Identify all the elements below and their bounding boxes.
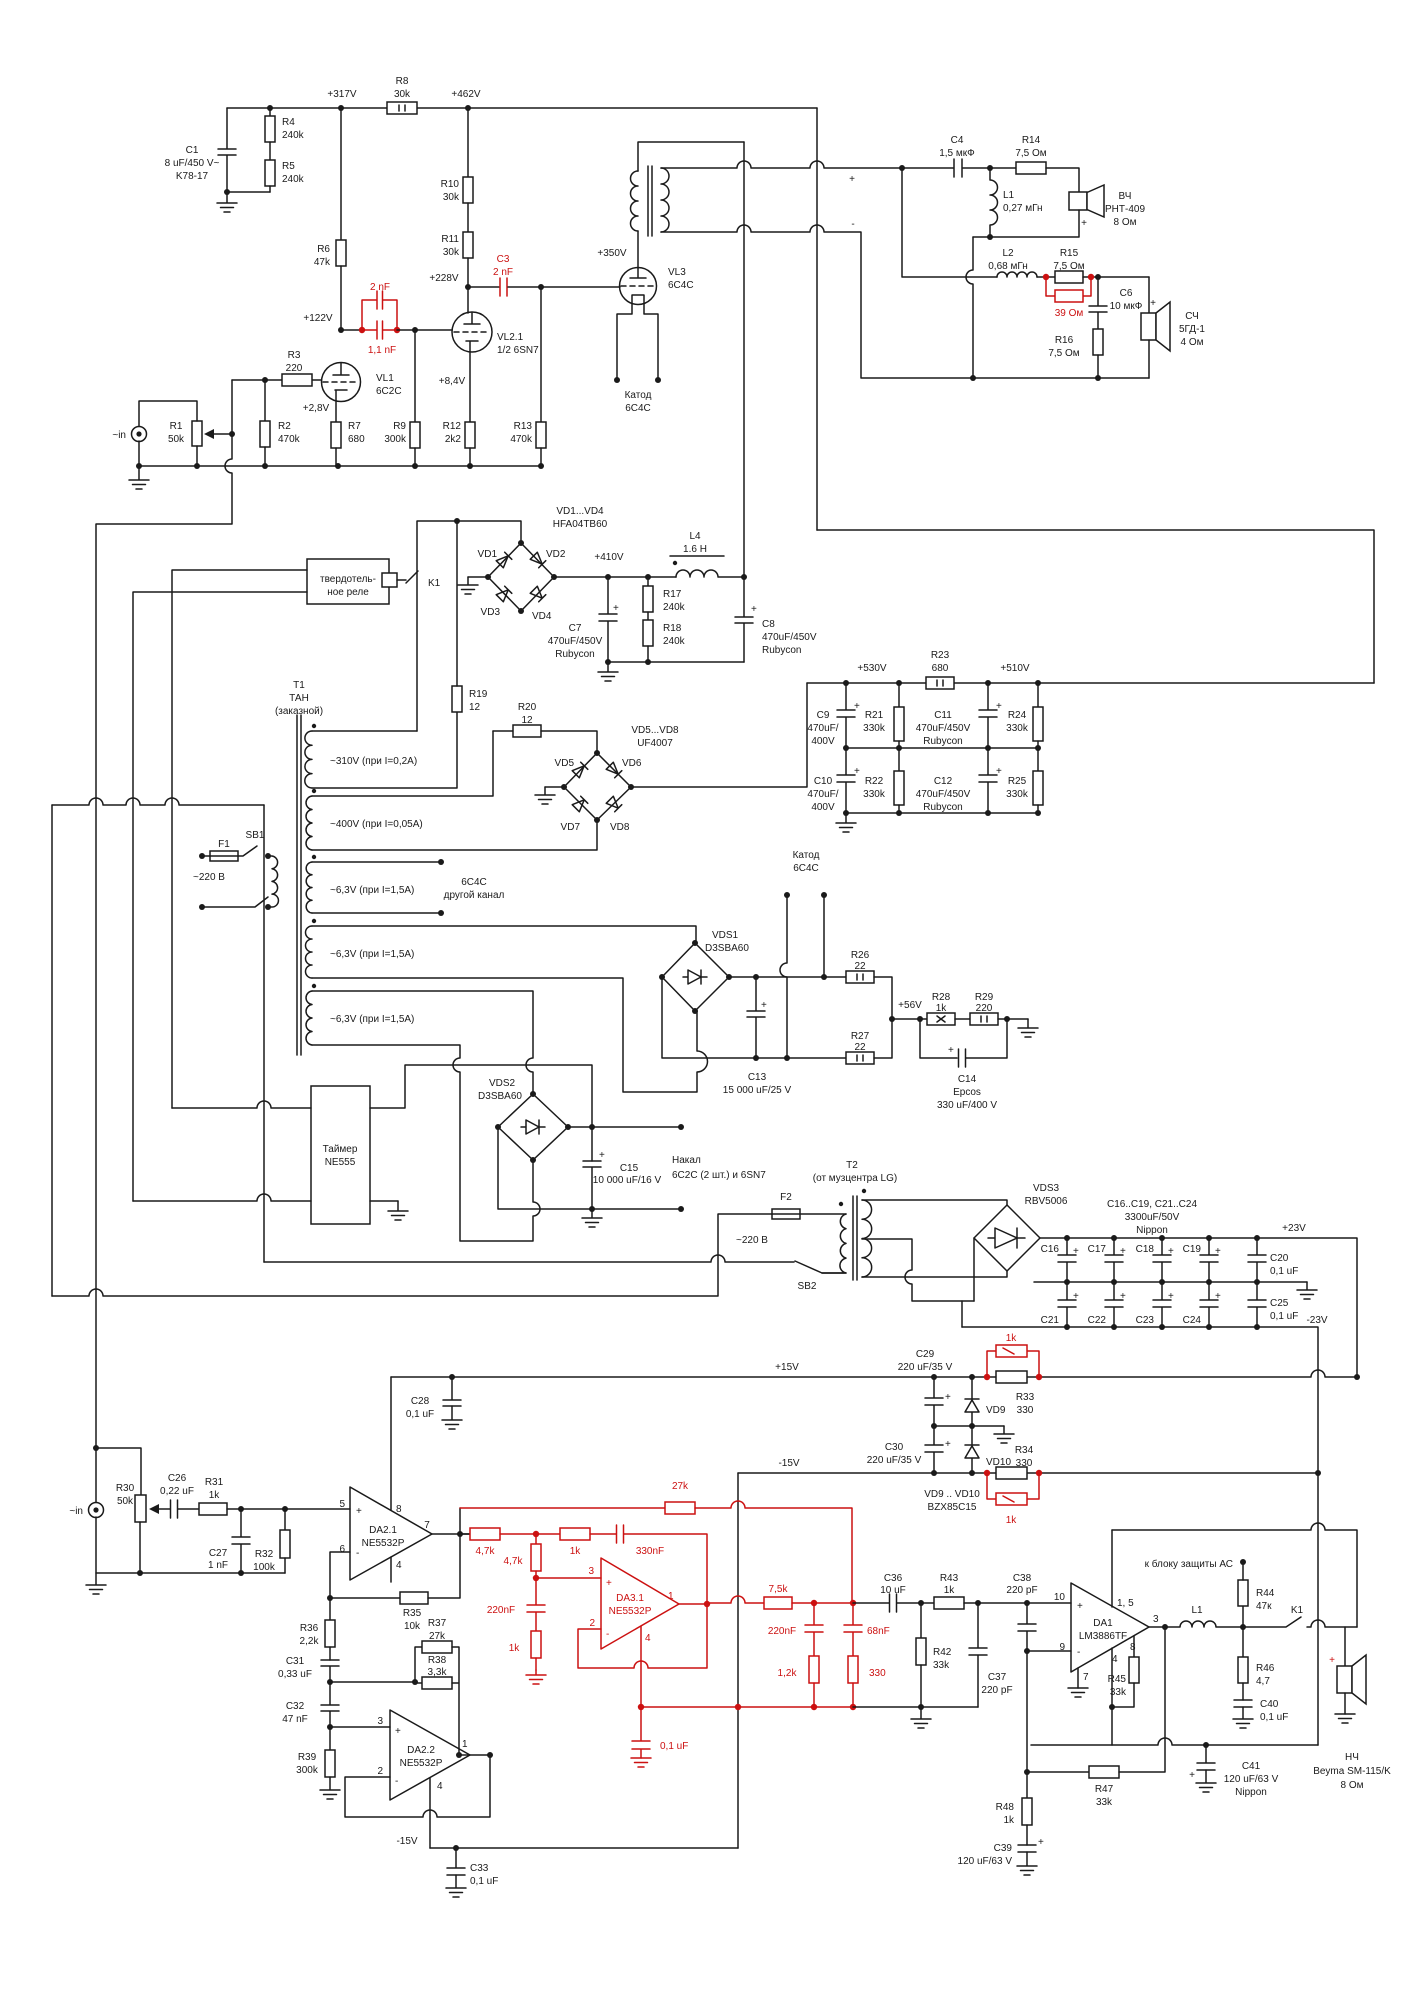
svg-text:R32: R32 <box>255 1549 274 1560</box>
svg-text:-: - <box>606 1629 609 1640</box>
svg-text:1k: 1k <box>1006 1515 1018 1526</box>
svg-text:VL3: VL3 <box>668 267 686 278</box>
svg-text:R29: R29 <box>975 992 994 1003</box>
resistor R18 <box>647 612 649 620</box>
svg-text:+: + <box>761 1000 767 1011</box>
speaker ВЧ <box>1069 192 1087 210</box>
svg-text:L1: L1 <box>1003 190 1015 201</box>
capacitor C40 <box>1234 1700 1252 1707</box>
svg-text:R46: R46 <box>1256 1663 1275 1674</box>
capacitor C15 <box>583 1161 601 1209</box>
wire cathode 6C4C leads <box>784 892 790 898</box>
svg-text:0,1 uF: 0,1 uF <box>1270 1266 1298 1277</box>
svg-text:R1: R1 <box>170 421 183 432</box>
resistor R19 <box>452 686 462 712</box>
svg-text:220nF: 220nF <box>487 1605 515 1616</box>
svg-text:R47: R47 <box>1095 1784 1114 1795</box>
svg-text:4,7: 4,7 <box>1256 1676 1270 1687</box>
svg-text:220: 220 <box>286 363 303 374</box>
svg-text:5: 5 <box>339 1499 345 1510</box>
svg-text:47к: 47к <box>1256 1601 1272 1612</box>
svg-text:Beyma SM-115/K: Beyma SM-115/K <box>1313 1766 1391 1777</box>
svg-text:Таймер: Таймер <box>323 1144 358 1155</box>
svg-text:330nF: 330nF <box>636 1546 664 1557</box>
capacitor C30 <box>925 1426 943 1473</box>
svg-text:4,7k: 4,7k <box>504 1556 524 1567</box>
svg-text:6C4C: 6C4C <box>461 877 487 888</box>
svg-text:R11: R11 <box>441 234 459 245</box>
ground red below 1k <box>526 1670 546 1684</box>
svg-text:120 uF/63 V: 120 uF/63 V <box>1224 1774 1279 1785</box>
wire bank bottom rail <box>846 812 1038 814</box>
capacitor C6 <box>1089 277 1107 329</box>
svg-text:22: 22 <box>854 1042 866 1053</box>
svg-text:4,7k: 4,7k <box>476 1546 496 1557</box>
svg-text:470uF/: 470uF/ <box>807 789 838 800</box>
wire DA1 inverting input <box>1027 1651 1071 1772</box>
svg-text:C18: C18 <box>1136 1244 1155 1255</box>
svg-text:470uF/450V: 470uF/450V <box>916 789 971 800</box>
svg-text:SB2: SB2 <box>798 1281 817 1292</box>
svg-text:0,1 uF: 0,1 uF <box>406 1409 434 1420</box>
capacitor C3 (red) <box>468 286 499 288</box>
svg-text:R13: R13 <box>514 421 533 432</box>
svg-text:300k: 300k <box>296 1765 319 1776</box>
wire R37/R38 right link <box>452 1647 459 1755</box>
wire filter ground line <box>853 1706 978 1708</box>
svg-text:ное реле: ное реле <box>327 587 369 598</box>
svg-text:39 Ом: 39 Ом <box>1055 308 1084 319</box>
svg-text:50k: 50k <box>117 1496 134 1507</box>
svg-text:R48: R48 <box>996 1802 1015 1813</box>
svg-text:R27: R27 <box>851 1031 870 1042</box>
svg-text:Nippon: Nippon <box>1235 1787 1267 1798</box>
wire T2 secondary bottom <box>862 1271 1007 1277</box>
wire VL3 anode to primary <box>637 231 639 268</box>
svg-text:+: + <box>854 766 860 777</box>
wire NE555 left top (hops mains) <box>172 1101 311 1108</box>
resistor R4 <box>269 108 271 116</box>
ground below C7 <box>598 662 618 681</box>
svg-text:30k: 30k <box>394 89 411 100</box>
svg-text:Rubycon: Rubycon <box>555 649 594 660</box>
svg-text:1k: 1k <box>1006 1333 1018 1344</box>
svg-text:220 pF: 220 pF <box>1006 1585 1037 1596</box>
wire grid node to red caps <box>341 329 362 331</box>
svg-text:NE5532P: NE5532P <box>362 1538 405 1549</box>
svg-text:РНТ-409: РНТ-409 <box>1105 204 1145 215</box>
svg-text:DA2.2: DA2.2 <box>407 1745 435 1756</box>
svg-text:Epcos: Epcos <box>953 1087 981 1098</box>
svg-text:680: 680 <box>348 434 365 445</box>
svg-text:+: + <box>996 701 1002 712</box>
svg-text:C29: C29 <box>916 1349 935 1360</box>
resistor R15 <box>1037 276 1055 278</box>
svg-text:DA2.1: DA2.1 <box>369 1525 397 1536</box>
svg-text:8 uF/450 V~: 8 uF/450 V~ <box>165 158 220 169</box>
svg-text:C33: C33 <box>470 1863 489 1874</box>
svg-text:470uF/: 470uF/ <box>807 723 838 734</box>
capacitor C12 <box>979 748 997 813</box>
svg-text:-15V: -15V <box>778 1458 799 1469</box>
svg-text:+: + <box>356 1506 362 1517</box>
svg-text:+510V: +510V <box>1000 663 1030 674</box>
svg-text:8 Ом: 8 Ом <box>1114 217 1137 228</box>
diode VD8 <box>606 796 622 812</box>
SB1 lower pole <box>199 904 205 910</box>
node rail-C1R4 <box>267 105 273 111</box>
svg-text:VL1: VL1 <box>376 373 394 384</box>
resistor R22 <box>898 748 900 771</box>
resistor R28 <box>927 1013 955 1025</box>
svg-text:+: + <box>1038 1837 1044 1848</box>
svg-text:UF4007: UF4007 <box>637 738 673 749</box>
svg-text:4 Ом: 4 Ом <box>1181 337 1204 348</box>
rail -23V <box>962 1327 1318 1745</box>
svg-text:2k2: 2k2 <box>445 434 462 445</box>
diode VDS2 symbol <box>521 1120 545 1134</box>
node VL1 grid <box>338 327 344 333</box>
resistor R20 <box>493 730 513 732</box>
speaker СЧ <box>1148 277 1150 313</box>
svg-text:240k: 240k <box>663 636 686 647</box>
capacitor C4 <box>902 159 990 177</box>
svg-text:470k: 470k <box>510 434 533 445</box>
svg-text:5ГД-1: 5ГД-1 <box>1179 324 1205 335</box>
svg-text:Катод: Катод <box>625 390 652 401</box>
svg-text:R31: R31 <box>205 1477 224 1488</box>
svg-text:-: - <box>1077 1647 1080 1658</box>
node rail-R6 <box>338 105 344 111</box>
capacitor C22 <box>1105 1282 1123 1327</box>
diode VD2 <box>530 552 546 568</box>
wire relay control 2 <box>133 592 307 1201</box>
svg-text:R36: R36 <box>300 1623 319 1634</box>
capacitor C18 <box>1153 1238 1171 1282</box>
capacitor C20 <box>1248 1238 1266 1282</box>
bridge VDS1 <box>662 943 729 1011</box>
svg-text:Rubycon: Rubycon <box>923 736 962 747</box>
svg-text:R44: R44 <box>1256 1588 1275 1599</box>
diode VD6 <box>606 762 622 778</box>
svg-text:+: + <box>849 174 855 185</box>
svg-text:+: + <box>751 604 757 615</box>
svg-text:C36: C36 <box>884 1573 903 1584</box>
svg-text:R15: R15 <box>1060 248 1079 259</box>
resistor R29 <box>955 1018 970 1020</box>
svg-text:680: 680 <box>932 663 949 674</box>
wire top link to K1 (hops -23V riser) <box>1112 1523 1357 1627</box>
winding T1 6,3V other channel <box>312 855 316 859</box>
svg-text:C7: C7 <box>569 623 582 634</box>
node rail-R10 <box>465 105 471 111</box>
wire DA2.2 pin4 to -15V <box>429 1778 431 1848</box>
svg-text:+: + <box>1168 1291 1174 1302</box>
capacitor C25 <box>1248 1282 1266 1327</box>
svg-text:VDS2: VDS2 <box>489 1078 516 1089</box>
transformer core <box>648 166 652 236</box>
svg-text:DA1: DA1 <box>1093 1618 1113 1629</box>
svg-text:+: + <box>1215 1291 1221 1302</box>
svg-text:+228V: +228V <box>429 273 459 284</box>
capacitor C10 <box>837 748 855 813</box>
svg-text:T1: T1 <box>293 680 305 691</box>
svg-text:VD8: VD8 <box>610 822 630 833</box>
svg-text:D3SBA60: D3SBA60 <box>478 1091 522 1102</box>
ground below bank <box>836 813 856 832</box>
triode VL1 <box>322 363 361 402</box>
svg-text:330 uF/400 V: 330 uF/400 V <box>937 1100 997 1111</box>
svg-text:1,1 nF: 1,1 nF <box>368 345 396 356</box>
svg-text:F1: F1 <box>218 839 230 850</box>
wire NE555 supply from C15 plus <box>370 1065 592 1161</box>
svg-text:1k: 1k <box>944 1585 956 1596</box>
rail -23V bottom (hops feedback riser) <box>1031 1738 1318 1745</box>
svg-text:VDS1: VDS1 <box>712 930 739 941</box>
svg-text:VD1...VD4: VD1...VD4 <box>556 506 604 517</box>
wire VDS1 minus rail <box>662 977 846 1058</box>
wire mains to F2 <box>52 1214 772 1296</box>
capacitor C19 <box>1200 1238 1218 1282</box>
node R9 top <box>412 327 418 333</box>
svg-text:R2: R2 <box>278 421 291 432</box>
svg-text:8: 8 <box>1130 1642 1136 1653</box>
svg-text:C6: C6 <box>1120 288 1133 299</box>
capacitor C33 <box>447 1848 465 1875</box>
svg-text:R28: R28 <box>932 992 951 1003</box>
svg-text:~in: ~in <box>112 430 126 441</box>
svg-text:C12: C12 <box>934 776 953 787</box>
svg-text:-: - <box>395 1776 398 1787</box>
svg-text:VDS3: VDS3 <box>1033 1183 1060 1194</box>
svg-text:30k: 30k <box>443 247 460 258</box>
capacitor C37 <box>969 1603 987 1707</box>
svg-text:VD9: VD9 <box>986 1405 1006 1416</box>
svg-text:L2: L2 <box>1002 248 1014 259</box>
diode VD3 <box>496 586 512 602</box>
svg-text:R37: R37 <box>428 1618 447 1629</box>
svg-text:ТАН: ТАН <box>289 693 309 704</box>
resistor R2 <box>264 380 266 421</box>
svg-text:6C2C: 6C2C <box>376 386 402 397</box>
svg-text:120 uF/63 V: 120 uF/63 V <box>958 1856 1013 1867</box>
capacitor 68nF (red) with resistor 330 <box>844 1603 862 1656</box>
svg-text:~310V (при I=0,2A): ~310V (при I=0,2A) <box>330 756 417 767</box>
svg-text:VD5: VD5 <box>555 758 575 769</box>
svg-text:10k: 10k <box>404 1621 421 1632</box>
svg-text:C40: C40 <box>1260 1699 1279 1710</box>
svg-text:R38: R38 <box>428 1655 447 1666</box>
svg-text:+15V: +15V <box>775 1362 799 1373</box>
resistor R3 <box>232 379 321 381</box>
resistor R10 <box>467 108 469 177</box>
wire pot bottom <box>139 1522 141 1573</box>
capacitor C27 <box>232 1509 250 1573</box>
capacitor 220nF (red shunt) <box>527 1578 545 1631</box>
svg-text:C37: C37 <box>988 1672 1007 1683</box>
resistor R13 <box>540 287 542 422</box>
svg-text:2,2k: 2,2k <box>300 1636 320 1647</box>
wire tweeter bottom <box>973 210 1079 237</box>
svg-text:SB1: SB1 <box>246 830 265 841</box>
svg-text:15 000 uF/25 V: 15 000 uF/25 V <box>723 1085 792 1096</box>
ground below C15 <box>582 1209 602 1227</box>
wire -15V riser <box>737 1473 739 1848</box>
wire DA2.2 output <box>459 1754 490 1756</box>
svg-text:C22: C22 <box>1088 1315 1107 1326</box>
svg-text:7,5 Ом: 7,5 Ом <box>1015 148 1046 159</box>
capacitor C28 <box>443 1377 461 1406</box>
wire DA2.2 non-inverting input <box>330 1726 390 1728</box>
svg-text:1k: 1k <box>209 1490 221 1501</box>
diode VDS1 symbol <box>683 970 707 984</box>
svg-text:ВЧ: ВЧ <box>1119 191 1132 202</box>
svg-text:0,68 мГн: 0,68 мГн <box>988 261 1028 272</box>
rail +15V (hops -23V riser) <box>391 1370 1357 1377</box>
svg-text:33k: 33k <box>933 1660 950 1671</box>
capacitor C1 <box>218 108 270 192</box>
wire tweeter return (hops L2 line) <box>966 237 973 378</box>
svg-text:Rubycon: Rubycon <box>762 645 801 656</box>
speaker НЧ <box>1344 1627 1346 1666</box>
svg-text:400V: 400V <box>811 736 835 747</box>
svg-text:0,33 uF: 0,33 uF <box>278 1669 312 1680</box>
svg-text:400V: 400V <box>811 802 835 813</box>
svg-text:LM3886TF: LM3886TF <box>1079 1631 1127 1642</box>
svg-text:+56V: +56V <box>898 1000 922 1011</box>
diode VD1 <box>496 552 512 568</box>
svg-text:VD7: VD7 <box>561 822 581 833</box>
wire DA3.1 inverting loop (hops pin4) <box>578 1604 707 1668</box>
zener VD9 <box>965 1377 979 1426</box>
svg-text:7,5 Ом: 7,5 Ом <box>1048 348 1079 359</box>
rail -15V lower <box>430 1847 738 1849</box>
transformer T2 core <box>853 1196 857 1280</box>
capacitor C24 <box>1200 1282 1218 1327</box>
resistor R38 <box>422 1677 452 1689</box>
rail zero volt mid <box>1034 1281 1307 1283</box>
transformer T output primary <box>631 171 638 231</box>
svg-text:6C4C: 6C4C <box>625 403 651 414</box>
wire VDS2 plus to C15 top <box>568 1126 681 1128</box>
resistor 39 Ом (red) <box>1046 277 1091 296</box>
node C6 top <box>1095 274 1101 280</box>
potentiometer R30 <box>135 1495 146 1522</box>
svg-text:~220 В: ~220 В <box>736 1235 768 1246</box>
inductor L1 (output) <box>1149 1621 1243 1627</box>
wire red to DA3.1 pin3 <box>536 1577 601 1579</box>
op-amp DA2.1 <box>350 1487 432 1580</box>
wire VDS3 left to zero rail <box>973 1238 975 1301</box>
svg-text:470uF/450V: 470uF/450V <box>762 632 817 643</box>
svg-text:C20: C20 <box>1270 1253 1289 1264</box>
svg-text:R19: R19 <box>469 689 488 700</box>
svg-text:33k: 33k <box>1096 1797 1113 1808</box>
wire mains left drop <box>51 805 53 1296</box>
svg-text:+: + <box>945 1392 951 1403</box>
svg-text:C32: C32 <box>286 1701 305 1712</box>
resistor R35 <box>330 1597 400 1599</box>
svg-text:0,22 uF: 0,22 uF <box>160 1486 194 1497</box>
svg-text:C17: C17 <box>1088 1244 1107 1255</box>
resistor R11 <box>467 203 469 232</box>
ground at VD1-4 <box>468 576 488 578</box>
svg-text:R21: R21 <box>865 710 884 721</box>
svg-text:50k: 50k <box>168 434 185 445</box>
svg-text:F2: F2 <box>780 1192 792 1203</box>
resistor R45 <box>1133 1636 1135 1657</box>
svg-text:R20: R20 <box>518 702 537 713</box>
wire DA2.1 pin4 stub <box>390 1557 392 1582</box>
svg-text:12: 12 <box>521 715 533 726</box>
svg-text:+: + <box>1120 1246 1126 1257</box>
wire +462V down right <box>816 108 818 530</box>
resistor R25 <box>1037 748 1039 771</box>
svg-text:3: 3 <box>588 1566 594 1577</box>
svg-text:+23V: +23V <box>1282 1223 1306 1234</box>
resistor R37 <box>422 1641 452 1653</box>
svg-text:1 nF: 1 nF <box>208 1560 228 1571</box>
connector ~in (upper) <box>132 427 147 442</box>
svg-text:VD5...VD8: VD5...VD8 <box>631 725 679 736</box>
svg-text:9: 9 <box>1059 1642 1065 1653</box>
capacitor C38 <box>1018 1603 1036 1651</box>
svg-text:4: 4 <box>396 1560 402 1571</box>
svg-text:R30: R30 <box>116 1483 135 1494</box>
svg-text:C30: C30 <box>885 1442 904 1453</box>
svg-text:C13: C13 <box>748 1072 767 1083</box>
winding T1 6,3V VDS2 <box>312 984 316 988</box>
switch SB2 <box>795 1261 846 1273</box>
svg-text:220 uF/35 V: 220 uF/35 V <box>867 1455 922 1466</box>
resistor R27 <box>846 1052 874 1064</box>
svg-text:330k: 330k <box>1006 723 1029 734</box>
svg-text:1, 5: 1, 5 <box>1117 1598 1134 1609</box>
zener VD10 <box>965 1426 979 1473</box>
winding T1 6,3V VDS1 <box>312 919 316 923</box>
wire DA3.1 output <box>679 1603 707 1605</box>
bridge VDS2 <box>498 1094 568 1160</box>
svg-text:+: + <box>613 603 619 614</box>
svg-text:-: - <box>851 219 854 230</box>
capacitor 2 nF (red) <box>362 291 397 330</box>
svg-text:~6,3V (при I=1,5A): ~6,3V (при I=1,5A) <box>330 1014 414 1025</box>
svg-text:R26: R26 <box>851 950 870 961</box>
svg-text:VL2.1: VL2.1 <box>497 332 524 343</box>
svg-text:C24: C24 <box>1183 1315 1202 1326</box>
svg-text:R22: R22 <box>865 776 884 787</box>
winding T1 ~400V <box>312 789 316 793</box>
node DA3.1 output <box>704 1601 710 1607</box>
capacitor 330nF (red) <box>617 1525 708 1603</box>
svg-text:R43: R43 <box>940 1573 959 1584</box>
svg-text:+: + <box>1189 1770 1195 1781</box>
transformer T2 secondary <box>862 1189 866 1193</box>
svg-text:+: + <box>1168 1246 1174 1257</box>
svg-text:27k: 27k <box>429 1631 446 1642</box>
svg-text:C21: C21 <box>1041 1315 1060 1326</box>
wire C7/C8 ground rail <box>608 661 744 663</box>
op-amp DA1 LM3886 <box>1071 1583 1149 1672</box>
resistor R5 <box>269 142 271 160</box>
svg-text:1k: 1k <box>509 1643 521 1654</box>
transformer T2 primary <box>839 1202 843 1206</box>
svg-text:другой канал: другой канал <box>444 890 505 901</box>
fuse F1 <box>199 853 205 859</box>
bridge VD5...VD8 <box>564 753 631 820</box>
svg-text:1k: 1k <box>936 1003 948 1014</box>
wire red minus link <box>641 1706 853 1708</box>
